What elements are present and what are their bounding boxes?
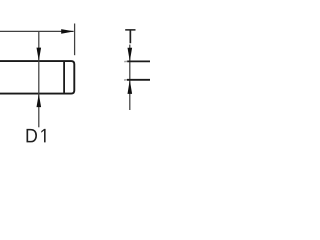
chamfer line at right end of part: [63, 62, 65, 93]
extension line at part right end: [74, 24, 76, 56]
length dimension line: [0, 30, 74, 32]
arrowhead up to end-view bottom edge: [128, 80, 133, 94]
label D1: digit 1: [41, 129, 45, 143]
D1 leader line: [38, 32, 40, 127]
arrowhead up to part bottom edge: [37, 94, 42, 107]
label D1: letter D: [27, 129, 38, 143]
T leader line: [129, 45, 131, 110]
end view bottom edge (cropped at right canvas edge): [127, 79, 152, 81]
end view top edge (cropped at right canvas edge): [127, 60, 152, 62]
part body outline (side view, cropped at left edge): [0, 61, 74, 94]
label T: [125, 29, 135, 43]
arrowhead down to part top edge: [37, 48, 42, 61]
arrowhead right on length dimension: [61, 29, 74, 34]
arrowhead down to end-view top edge: [128, 48, 133, 62]
